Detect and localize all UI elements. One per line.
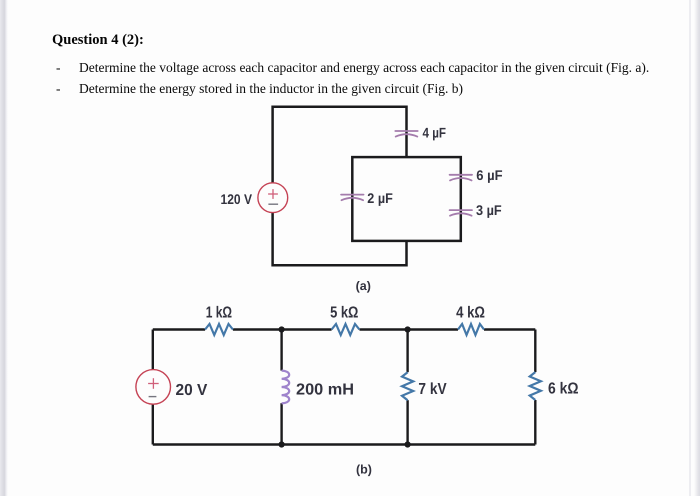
svg-text:4 µF: 4 µF xyxy=(423,124,447,140)
svg-text:6 kΩ: 6 kΩ xyxy=(548,381,579,398)
svg-text:20 V: 20 V xyxy=(176,382,208,399)
svg-text:1 kΩ: 1 kΩ xyxy=(206,304,233,321)
svg-text:6 µF: 6 µF xyxy=(476,167,503,183)
svg-text:4 kΩ: 4 kΩ xyxy=(456,304,485,321)
svg-text:7 kV: 7 kV xyxy=(418,381,446,398)
svg-text:200 mH: 200 mH xyxy=(296,381,354,398)
svg-text:2 µF: 2 µF xyxy=(367,190,393,206)
svg-text:(b): (b) xyxy=(356,463,372,477)
svg-text:(a): (a) xyxy=(356,279,371,293)
svg-text:120 V: 120 V xyxy=(221,191,253,207)
svg-text:5 kΩ: 5 kΩ xyxy=(330,305,358,322)
svg-text:3 µF: 3 µF xyxy=(476,202,502,218)
